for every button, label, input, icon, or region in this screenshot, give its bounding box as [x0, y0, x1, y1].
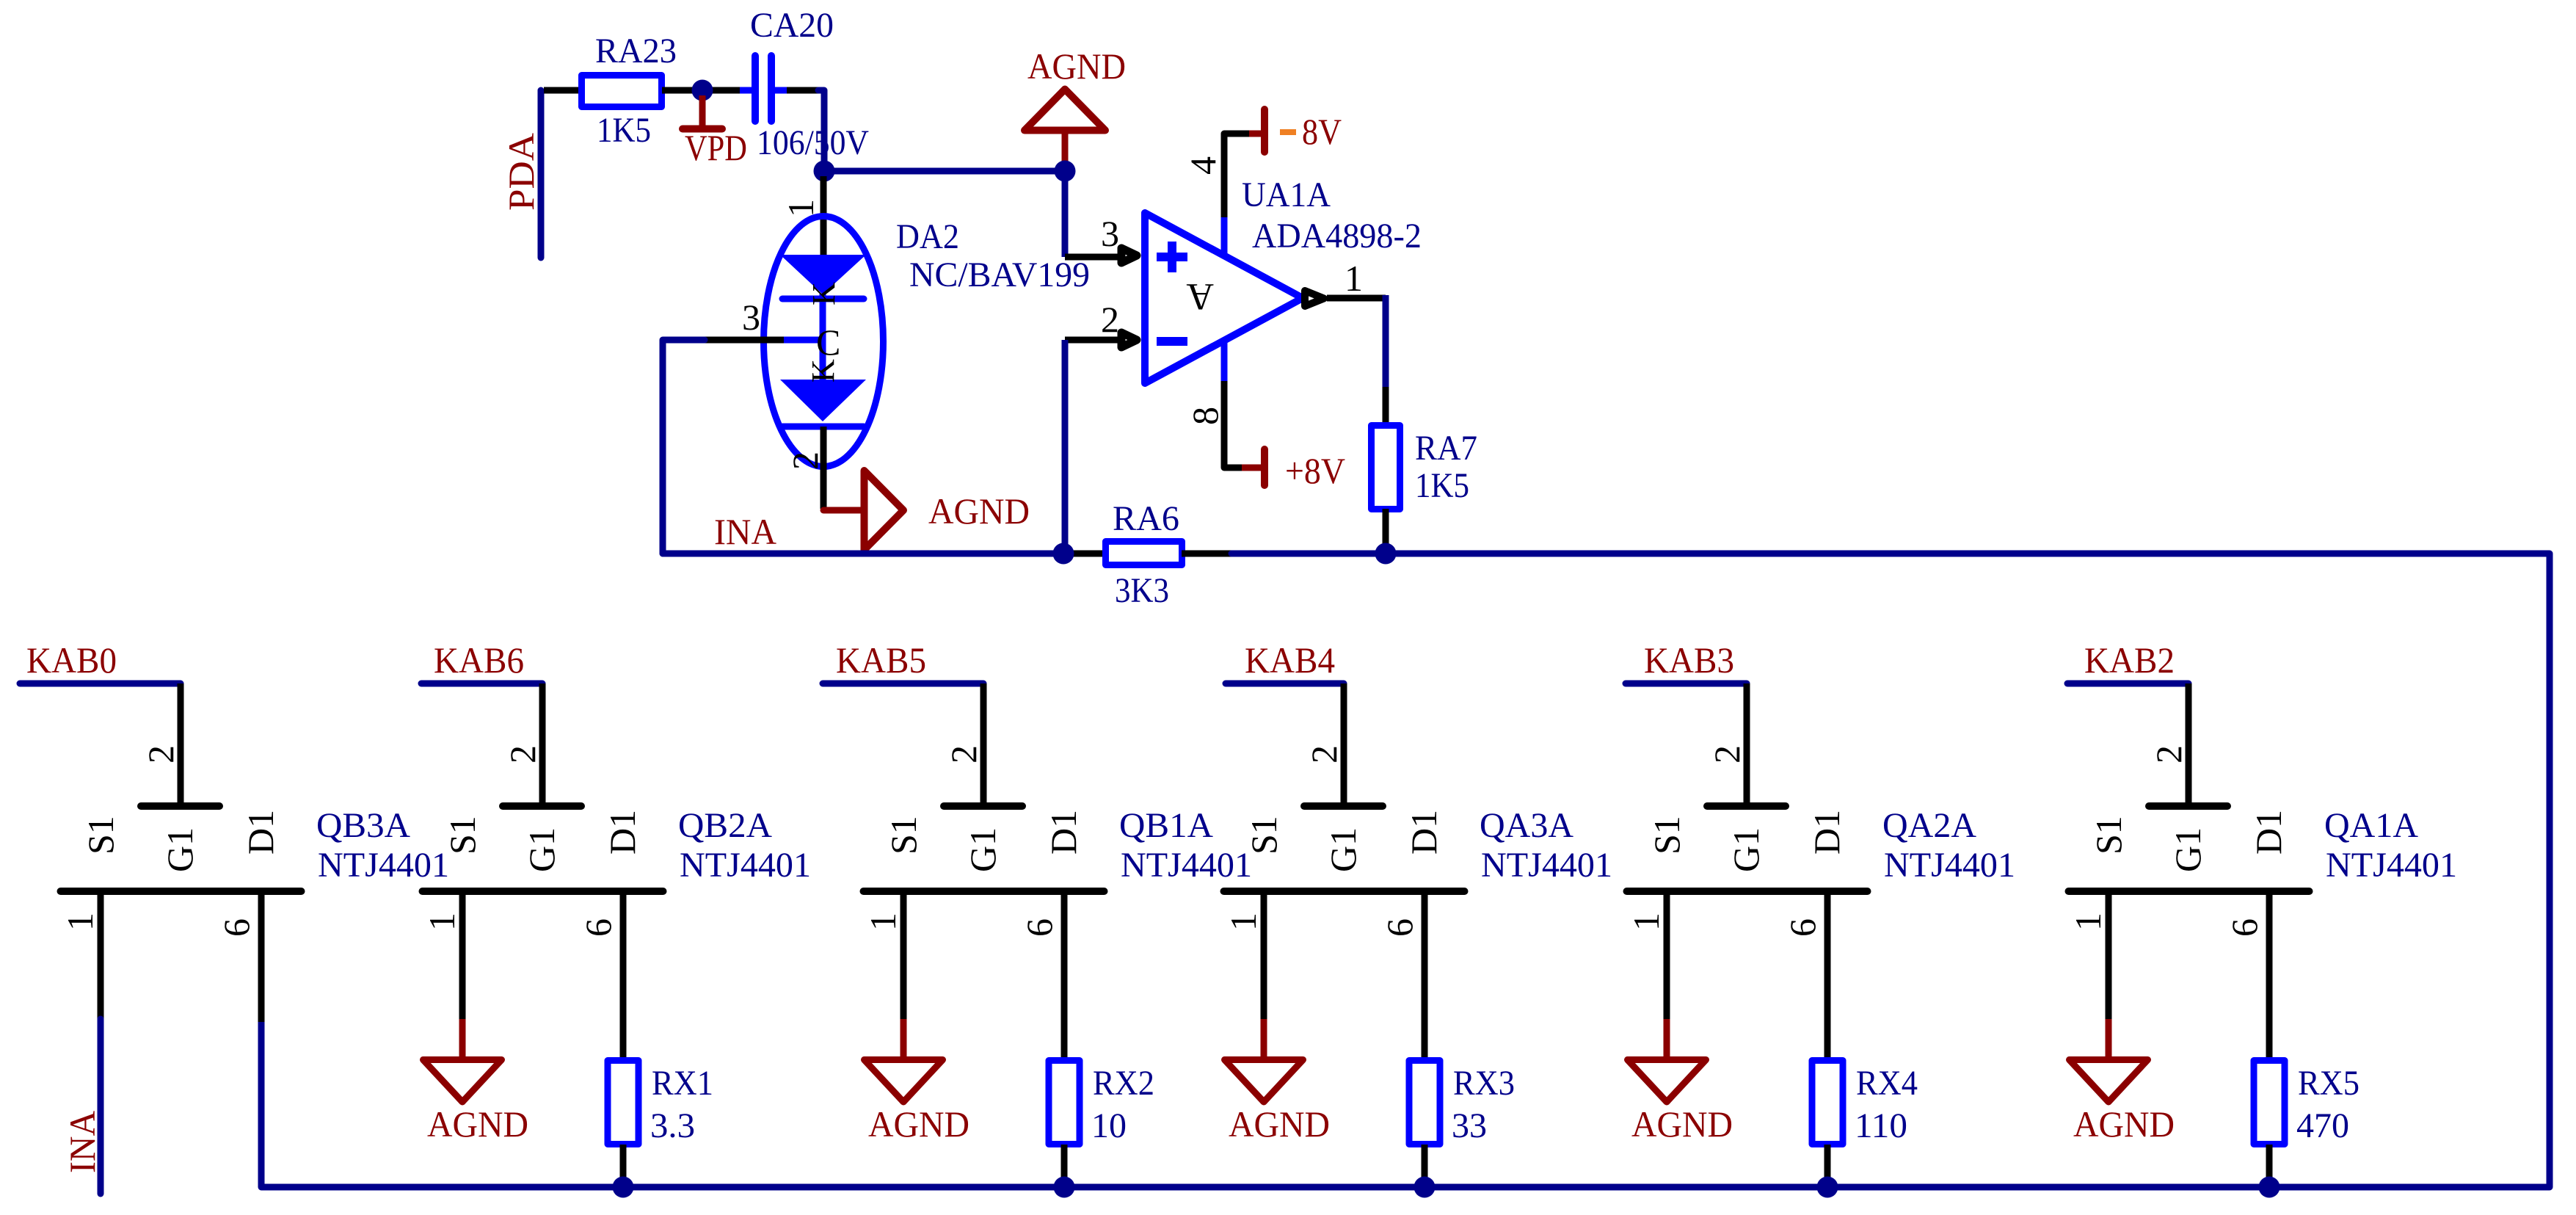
svg-text:D1: D1	[1806, 810, 1847, 855]
wire net KAB6	[421, 681, 542, 687]
wire DA2 pin3 to INA corner	[705, 337, 784, 344]
power port VPD	[699, 95, 706, 126]
svg-text:AGND: AGND	[1229, 1103, 1330, 1145]
svg-text:S1: S1	[1243, 816, 1284, 855]
node RX4 junction	[1817, 1177, 1838, 1198]
svg-text:NC/BAV199: NC/BAV199	[909, 255, 1090, 294]
transistor Q5 gate wire	[1744, 683, 1750, 802]
svg-text:RA7: RA7	[1415, 429, 1477, 468]
op-amp pin 3 input	[1065, 254, 1120, 261]
svg-text:QA1A: QA1A	[2324, 806, 2418, 845]
svg-text:1: 1	[2067, 913, 2109, 931]
wire net KAB5	[823, 681, 983, 687]
svg-text:D1: D1	[602, 810, 643, 855]
svg-text:106/50V: 106/50V	[757, 123, 869, 162]
op-amp pin 2 input	[1065, 337, 1120, 344]
wire RX3 to bus	[1422, 1145, 1428, 1187]
svg-text:D1: D1	[1403, 810, 1444, 855]
wire PDA vertical	[538, 90, 545, 258]
svg-text:KAB5: KAB5	[836, 639, 926, 681]
wire INA feedback bus	[663, 551, 1073, 557]
wire Q1 drain to bus	[258, 895, 265, 1022]
node RX5 junction	[2259, 1177, 2280, 1198]
svg-text:33: 33	[1452, 1106, 1487, 1145]
wire corner down to node	[818, 90, 824, 171]
svg-text:AGND: AGND	[928, 490, 1030, 532]
wire RX4 to bus	[1824, 1145, 1831, 1187]
node RX3 junction	[1414, 1177, 1436, 1198]
wire RA7 to bus	[1383, 509, 1389, 554]
svg-text:4: 4	[1182, 156, 1223, 175]
svg-text:G1: G1	[1725, 827, 1767, 872]
wire PDA to RA23	[544, 87, 581, 94]
svg-text:RA6: RA6	[1113, 499, 1179, 538]
svg-text:KAB6: KAB6	[434, 639, 524, 681]
node VPD junction	[692, 80, 713, 101]
svg-text:D1: D1	[240, 810, 281, 855]
wire op-amp pin2 feedback vertical	[1062, 340, 1069, 554]
wire net KAB3	[1626, 681, 1747, 687]
svg-text:KAB2: KAB2	[2084, 639, 2175, 681]
node RA6 left junction	[1053, 543, 1074, 565]
svg-text:G1: G1	[962, 827, 1003, 872]
node RA7 junction	[1375, 543, 1397, 565]
svg-text:6: 6	[2224, 918, 2265, 937]
transistor QB3A	[141, 802, 219, 810]
svg-text:ADA4898-2: ADA4898-2	[1252, 217, 1422, 255]
power port AGND mid	[823, 507, 864, 514]
power port AGND cell 2	[459, 1019, 466, 1058]
svg-text:1: 1	[1345, 258, 1363, 299]
svg-text:3.3: 3.3	[650, 1106, 695, 1145]
svg-text:NTJ4401: NTJ4401	[1481, 846, 1612, 885]
svg-text:UA1A: UA1A	[1242, 175, 1331, 214]
svg-text:S1: S1	[1646, 816, 1687, 855]
svg-text:QA2A: QA2A	[1882, 806, 1976, 845]
node AGND junction	[1055, 161, 1076, 182]
svg-text:2: 2	[2148, 745, 2189, 764]
node RX1 junction	[613, 1177, 634, 1198]
resistor RA23	[582, 76, 662, 107]
op-amp pin 1 output	[1305, 291, 1324, 306]
svg-text:RX3: RX3	[1453, 1064, 1515, 1103]
transistor Q1 gate wire	[178, 683, 184, 802]
svg-text:2: 2	[1101, 299, 1119, 340]
svg-text:NTJ4401: NTJ4401	[1121, 846, 1252, 885]
wire junction down to op-amp pin3	[1062, 171, 1069, 257]
svg-text:3: 3	[742, 297, 760, 338]
svg-text:2: 2	[1706, 745, 1747, 764]
svg-text:1: 1	[59, 913, 101, 931]
wire net KAB4	[1226, 681, 1344, 687]
svg-text:KAB0: KAB0	[26, 639, 117, 681]
svg-text:S1: S1	[2088, 816, 2129, 855]
svg-text:2: 2	[502, 745, 543, 764]
wire Q5 drain pin	[1824, 895, 1831, 1058]
svg-text:1: 1	[1223, 913, 1264, 931]
svg-text:G1: G1	[159, 827, 200, 872]
svg-text:INA: INA	[714, 511, 776, 552]
svg-text:1K5: 1K5	[597, 111, 651, 150]
svg-text:AGND: AGND	[427, 1103, 528, 1145]
wire Q5 source pin	[1664, 895, 1670, 1020]
svg-text:PDA: PDA	[501, 133, 542, 211]
transistor Q4 gate wire	[1341, 683, 1347, 802]
svg-text:2: 2	[943, 745, 984, 764]
wire net KAB0	[20, 681, 181, 687]
op-amp pin 8	[1221, 338, 1228, 382]
wire Q6 drain pin	[2266, 895, 2273, 1058]
power port AGND top	[1062, 131, 1069, 171]
resistor RX5	[2254, 1061, 2285, 1145]
svg-text:6: 6	[1019, 918, 1060, 937]
svg-text:RX1: RX1	[652, 1064, 713, 1103]
wire Q3 drain pin	[1061, 895, 1068, 1058]
svg-text:AGND: AGND	[2073, 1103, 2175, 1145]
capacitor CA20	[740, 87, 752, 94]
svg-text:S1: S1	[883, 816, 924, 855]
svg-text:VPD: VPD	[685, 127, 747, 168]
svg-text:3K3: 3K3	[1115, 571, 1169, 610]
node DA2 pin1 junction	[814, 161, 835, 182]
wire Q4 drain pin	[1422, 895, 1428, 1058]
svg-text:D1: D1	[2248, 810, 2289, 855]
svg-text:1: 1	[862, 913, 903, 931]
svg-text:DA2: DA2	[896, 217, 959, 256]
transistor Q6 gate wire	[2186, 683, 2192, 802]
resistor RX1	[608, 1061, 638, 1145]
svg-text:NTJ4401: NTJ4401	[318, 846, 449, 885]
wire Q6 source pin	[2106, 895, 2112, 1020]
svg-text:AGND: AGND	[1027, 46, 1126, 87]
power port AGND cell 4	[1261, 1019, 1267, 1058]
svg-text:6: 6	[1379, 918, 1420, 937]
svg-text:2: 2	[140, 745, 181, 764]
svg-text:KAB4: KAB4	[1245, 639, 1335, 681]
transistor QB2A	[503, 802, 581, 810]
svg-text:RX2: RX2	[1093, 1064, 1154, 1103]
wire RA6 to node	[1182, 551, 1233, 557]
svg-text:6: 6	[216, 918, 257, 937]
power port AGND cell 3	[900, 1019, 907, 1058]
wire RX1 to bus	[620, 1145, 627, 1187]
wire net KAB2	[2067, 681, 2188, 687]
power port -8V	[1249, 131, 1263, 137]
resistor RX2	[1049, 1061, 1080, 1145]
svg-text:D1: D1	[1043, 810, 1084, 855]
transistor QA3A	[1304, 802, 1383, 810]
svg-text:NTJ4401: NTJ4401	[2326, 846, 2457, 885]
svg-text:S1: S1	[442, 816, 483, 855]
svg-text:10: 10	[1091, 1106, 1127, 1145]
svg-text:6: 6	[1782, 918, 1823, 937]
wire Q1 source to INA stub	[98, 895, 104, 1020]
svg-text:8V: 8V	[1302, 111, 1342, 152]
svg-text:1K5: 1K5	[1415, 466, 1469, 505]
svg-text:1: 1	[1626, 913, 1667, 931]
transistor Q3 gate wire	[980, 683, 987, 802]
power port AGND cell 6	[2106, 1019, 2112, 1058]
svg-text:S1: S1	[80, 816, 121, 855]
svg-text:K: K	[806, 282, 842, 305]
svg-text:RX5: RX5	[2298, 1064, 2359, 1103]
svg-text:G1: G1	[521, 827, 562, 872]
svg-text:1: 1	[421, 913, 462, 931]
wire RA23 to CA20	[662, 87, 741, 94]
power port AGND cell 5	[1664, 1019, 1670, 1058]
wire Q3 source pin	[900, 895, 907, 1020]
transistor Q2 gate wire	[539, 683, 546, 802]
wire Q2 source pin	[459, 895, 466, 1020]
svg-text:+8V: +8V	[1285, 450, 1345, 491]
op-amp UA1A	[1145, 213, 1303, 383]
svg-text:110: 110	[1855, 1106, 1907, 1145]
svg-text:3: 3	[1101, 213, 1119, 254]
wire DA2 pin2 to AGND	[821, 427, 827, 509]
wire output down to RA7	[1383, 295, 1389, 387]
svg-text:C: C	[816, 322, 840, 363]
transistor QA2A	[1707, 802, 1786, 810]
resistor RX3	[1409, 1061, 1440, 1145]
svg-text:QB3A: QB3A	[316, 806, 410, 845]
svg-text:NTJ4401: NTJ4401	[680, 846, 811, 885]
svg-text:RX4: RX4	[1856, 1064, 1918, 1103]
transistor QB1A	[944, 802, 1022, 810]
svg-text:8: 8	[1185, 407, 1226, 425]
svg-text:QB1A: QB1A	[1119, 806, 1213, 845]
svg-text:AGND: AGND	[1631, 1103, 1733, 1145]
svg-text:INA: INA	[62, 1111, 103, 1173]
wire bus right and down to bottom bus	[261, 554, 2550, 1187]
node RX2 junction	[1054, 1177, 1075, 1198]
wire CA20 to corner	[787, 87, 821, 94]
svg-text:KAB3: KAB3	[1644, 639, 1734, 681]
transistor QA1A	[2149, 802, 2227, 810]
wire Q4 source pin	[1261, 895, 1267, 1020]
svg-text:K: K	[805, 359, 841, 382]
wire node to AGND junction	[824, 168, 1065, 175]
svg-text:QA3A: QA3A	[1480, 806, 1573, 845]
svg-text:CA20: CA20	[750, 6, 834, 45]
svg-text:470: 470	[2296, 1106, 2349, 1145]
svg-text:RA23: RA23	[595, 32, 677, 70]
op-amp pin 4	[1224, 134, 1249, 220]
svg-text:2: 2	[1303, 745, 1345, 764]
diode DA2	[821, 176, 827, 255]
svg-text:2: 2	[785, 451, 826, 470]
wire Q2 drain pin	[620, 895, 627, 1058]
wire RX2 to bus	[1061, 1145, 1068, 1187]
resistor RA7	[1372, 426, 1400, 509]
svg-text:QB2A: QB2A	[678, 806, 772, 845]
svg-text:G1: G1	[1322, 827, 1364, 872]
svg-text:AGND: AGND	[868, 1103, 969, 1145]
resistor RX4	[1812, 1061, 1843, 1145]
svg-text:6: 6	[578, 918, 619, 937]
svg-text:G1: G1	[2167, 827, 2208, 872]
svg-text:A: A	[1186, 275, 1214, 317]
resistor RA6	[1106, 542, 1182, 565]
power port +8V	[1242, 465, 1263, 471]
svg-text:1: 1	[780, 199, 821, 217]
wire RX5 to bus	[2266, 1145, 2273, 1187]
svg-text:NTJ4401: NTJ4401	[1884, 846, 2015, 885]
